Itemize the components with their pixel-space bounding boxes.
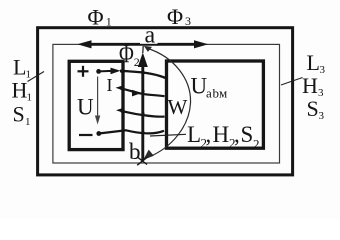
coil turn 2 <box>116 85 165 96</box>
svg-text:U: U <box>77 94 94 119</box>
svg-text:,: , <box>206 122 212 147</box>
U arrow pointing down <box>95 77 100 125</box>
svg-text:H: H <box>302 73 318 98</box>
svg-text:,: , <box>234 122 240 147</box>
svg-text:3: 3 <box>319 110 325 122</box>
svg-text:b: b <box>129 139 141 164</box>
flux arrow PHI1 (points left along top mid-line) <box>77 40 140 48</box>
svg-text:L: L <box>307 50 320 75</box>
svg-text:S: S <box>307 96 319 121</box>
node dot bottom terminal <box>96 131 101 136</box>
leader to right limb <box>281 78 303 86</box>
svg-text:Φ: Φ <box>167 4 183 29</box>
svg-text:2: 2 <box>134 55 140 69</box>
svg-text:м: м <box>219 86 227 101</box>
coil turn 3 <box>116 108 165 117</box>
svg-text:1: 1 <box>25 116 31 128</box>
svg-text:H: H <box>12 78 28 103</box>
node dot top terminal <box>96 69 101 74</box>
svg-text:1: 1 <box>106 15 112 29</box>
svg-text:3: 3 <box>320 64 326 76</box>
svg-text:H: H <box>213 122 230 147</box>
svg-text:1: 1 <box>27 92 33 104</box>
source minus terminal <box>79 134 93 136</box>
svg-text:Φ: Φ <box>88 5 104 30</box>
svg-text:I: I <box>107 75 113 95</box>
svg-text:S: S <box>13 102 25 127</box>
leader to left limb <box>28 72 45 82</box>
crossing blobs on limb <box>120 70 145 135</box>
right window <box>167 61 264 148</box>
label L2 H2 S2 with leader dash <box>150 134 186 136</box>
left window <box>69 61 123 149</box>
source plus terminal <box>78 66 89 77</box>
flux arrow PHI3 (points right along top mid-line) <box>158 40 209 48</box>
svg-text:W: W <box>168 95 188 119</box>
svg-text:L: L <box>187 122 201 147</box>
bottom wire of coil <box>99 130 164 133</box>
wire from + terminal to coil with current arrow <box>99 68 166 78</box>
svg-text:L: L <box>13 55 26 80</box>
svg-text:a: a <box>206 86 212 101</box>
svg-text:2: 2 <box>253 137 260 152</box>
node a junction segment <box>140 44 158 46</box>
svg-text:U: U <box>191 73 208 98</box>
junction star at b <box>137 157 148 165</box>
svg-text:3: 3 <box>318 87 324 99</box>
svg-text:a: a <box>145 22 156 48</box>
magnetic voltage arc a-b <box>143 46 190 160</box>
svg-text:S: S <box>241 122 254 147</box>
flux arrow PHI2 (vertical, points up to node a) <box>138 46 148 160</box>
svg-text:Φ: Φ <box>119 40 134 69</box>
core outer rectangle <box>38 28 293 175</box>
svg-text:3: 3 <box>185 14 191 28</box>
flux mid-line rectangle <box>53 44 280 163</box>
